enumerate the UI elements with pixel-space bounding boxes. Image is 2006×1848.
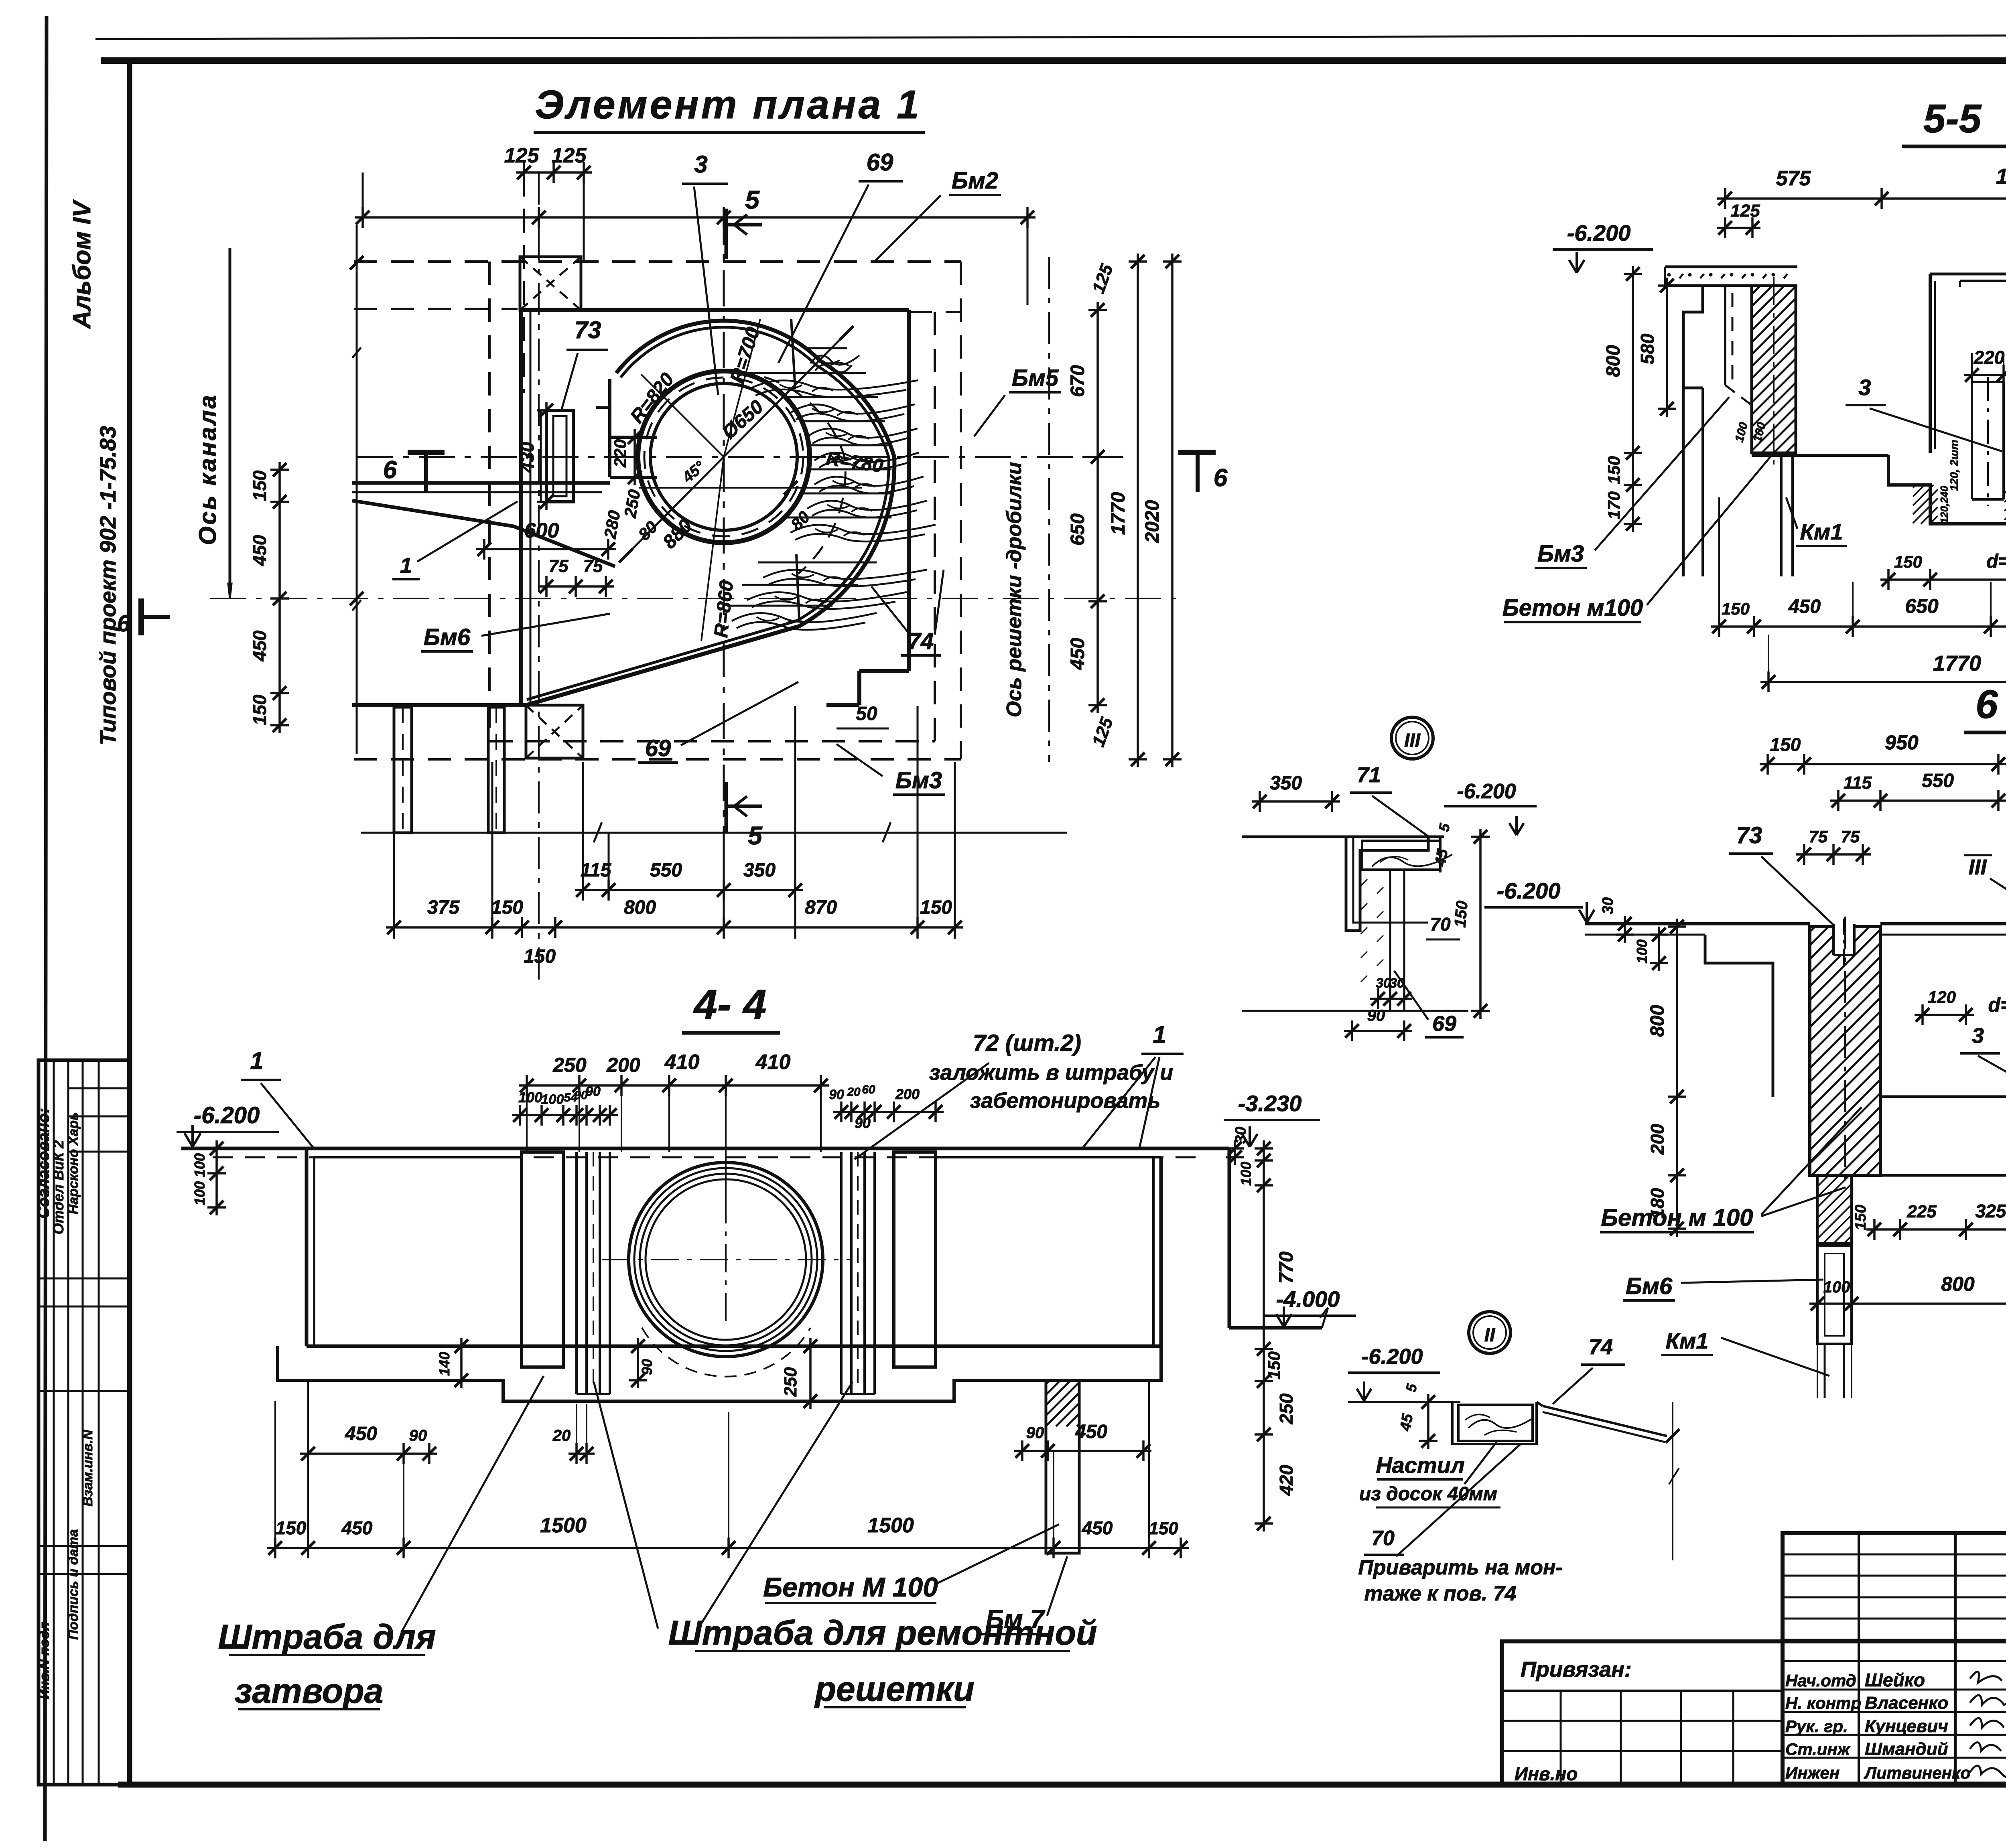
- svg-text:575: 575: [1776, 167, 1811, 190]
- approval table row line 1: [68, 1087, 130, 1089]
- svg-text:-6.200: -6.200: [1457, 780, 1516, 803]
- svg-text:3: 3: [694, 151, 707, 178]
- svg-text:6: 6: [117, 611, 130, 637]
- svg-text:580: 580: [1637, 333, 1658, 364]
- s44 gate pilaster left: [522, 1152, 563, 1367]
- svg-text:150: 150: [920, 897, 952, 918]
- svg-text:250: 250: [1276, 1393, 1297, 1424]
- svg-text:150: 150: [276, 1517, 307, 1538]
- svg-text:из досок 40мм: из досок 40мм: [1359, 1483, 1497, 1505]
- s44 pit right wall: [1159, 1157, 1163, 1346]
- svg-text:Ст.инж: Ст.инж: [1785, 1740, 1851, 1759]
- svg-text:6: 6: [1214, 464, 1228, 492]
- svg-text:200: 200: [895, 1086, 920, 1102]
- s55 left dim col inner: [1666, 278, 1668, 417]
- s66 floor lower profile: [1852, 1175, 2006, 1229]
- plan pit wall right edge: [907, 310, 911, 671]
- s55 left dim col outer: [1632, 266, 1634, 532]
- svg-text:4- 4: 4- 4: [693, 981, 767, 1028]
- s44 bottom extensions: [274, 1401, 276, 1556]
- s44 pit top inner edge: [314, 1156, 522, 1158]
- title block outer frame: [1502, 1641, 2006, 1785]
- s66 dim 100 800 row: [1809, 1302, 2006, 1305]
- s66 second dim row: [1830, 799, 2006, 802]
- plan volute exit diagonal wall: [526, 626, 799, 705]
- s55 left wall profile: [1683, 286, 1703, 388]
- s44 dim 20 center: [569, 1452, 595, 1455]
- s55 floor left part: [1752, 454, 1888, 457]
- s44 dim 140 left: [460, 1338, 463, 1388]
- s44 pipe centerlines: [602, 1259, 851, 1260]
- svg-text:30: 30: [1600, 897, 1616, 914]
- svg-text:-6.200: -6.200: [1497, 878, 1561, 903]
- s66 ground line mid: [1880, 922, 2006, 925]
- sheet frame bottom border: [118, 1782, 2006, 1788]
- svg-text:6 - 6: 6 - 6: [1976, 682, 2006, 727]
- svg-text:Ось решетки -дробилки: Ось решетки -дробилки: [1003, 462, 1026, 718]
- dIII channel profile: [1346, 837, 1428, 931]
- s66 floor profile: [1880, 1097, 2006, 1128]
- plan inlet notch: [610, 436, 657, 439]
- svg-text:650: 650: [1067, 513, 1088, 546]
- s55 dim 220 center: [1964, 374, 2006, 376]
- svg-text:115: 115: [1844, 773, 1872, 793]
- svg-text:2020: 2020: [1142, 500, 1163, 543]
- approval table row line 5: [39, 1306, 130, 1308]
- svg-text:50: 50: [856, 703, 877, 724]
- svg-text:74: 74: [908, 628, 934, 654]
- svg-text:150: 150: [524, 946, 556, 967]
- svg-text:69: 69: [867, 149, 893, 176]
- s55 chamber top opening: [1930, 273, 2006, 276]
- svg-text:115: 115: [581, 860, 612, 881]
- approval table row line 4: [39, 1278, 130, 1280]
- tb signatures: [1970, 1672, 2002, 1683]
- plan radial spoke R700: [724, 319, 760, 457]
- svg-text:20: 20: [552, 1427, 571, 1444]
- plan top dim vertical extensions: [523, 172, 525, 393]
- svg-text:Бетон м100: Бетон м100: [1502, 595, 1643, 621]
- svg-text:Настил: Настил: [1376, 1452, 1465, 1478]
- svg-text:1445: 1445: [1996, 164, 2006, 189]
- s55 hatched wall centerline: [1773, 277, 1775, 465]
- dIII dim 350: [1252, 800, 1340, 803]
- s44 base slab profile: [278, 1346, 1161, 1401]
- plan dim 220 notch: [633, 429, 636, 485]
- svg-text:-6.200: -6.200: [1361, 1345, 1423, 1369]
- s44 gate slot dashed center: [593, 1152, 594, 1394]
- svg-text:90: 90: [1026, 1424, 1044, 1442]
- svg-text:100: 100: [1238, 1162, 1254, 1186]
- detail II circle mark: [1469, 1312, 1511, 1353]
- svg-text:325: 325: [1976, 1201, 2006, 1221]
- s55 top dim row: [1717, 197, 2006, 200]
- svg-text:200: 200: [1647, 1124, 1668, 1155]
- detail III circle mark: [1391, 717, 1433, 759]
- s66 Bm6 white box: [1817, 1246, 1852, 1344]
- svg-text:125: 125: [1730, 201, 1760, 221]
- s55 central slot column: [1971, 382, 1973, 499]
- svg-text:Бетон м 100: Бетон м 100: [1601, 1204, 1753, 1231]
- title block tall grid box: [1783, 1533, 2006, 1785]
- plan grid dash-dot vertical A: [538, 172, 540, 983]
- svg-text:5: 5: [745, 185, 760, 214]
- svg-text:150: 150: [1852, 1205, 1869, 1230]
- s44 pipe outer circle: [629, 1162, 823, 1357]
- svg-text:Ось канала: Ось канала: [194, 394, 221, 545]
- svg-text:150: 150: [1770, 734, 1801, 755]
- svg-text:таже к пов. 74: таже к пов. 74: [1364, 1582, 1516, 1605]
- plan bottom dim row 1: [575, 889, 803, 891]
- svg-text:150: 150: [1451, 900, 1471, 928]
- svg-text:90: 90: [1367, 1007, 1385, 1024]
- dII top line: [1348, 1401, 1460, 1403]
- plan dim 600: [476, 548, 616, 550]
- dII leader board: [1464, 1442, 1496, 1484]
- svg-text:410: 410: [664, 1051, 700, 1074]
- svg-text:200: 200: [606, 1054, 640, 1076]
- svg-text:150: 150: [1265, 1351, 1283, 1379]
- svg-text:Инв.но: Инв.но: [1515, 1763, 1578, 1784]
- svg-text:150: 150: [249, 470, 270, 501]
- svg-text:90: 90: [829, 1087, 844, 1102]
- plan gate device 73 inner: [553, 416, 566, 496]
- s66 left dim col: [1676, 919, 1678, 1237]
- s55 left foundation piles: [1780, 455, 1783, 576]
- svg-text:74: 74: [1589, 1335, 1613, 1359]
- svg-text:1: 1: [1153, 1021, 1166, 1048]
- svg-text:Км1: Км1: [1800, 519, 1843, 544]
- svg-text:1770: 1770: [1108, 492, 1129, 535]
- sheet frame top border: [101, 57, 2006, 64]
- plan right dim col 1: [1096, 302, 1099, 713]
- svg-text:450: 450: [249, 535, 270, 566]
- tb grid horizontals: [1783, 1554, 2006, 1556]
- plan right dim col 2: [1137, 254, 1139, 767]
- svg-text:затвора: затвора: [235, 1672, 384, 1710]
- plan pit bottom right edge: [859, 669, 909, 673]
- svg-text:Власенко: Власенко: [1865, 1693, 1948, 1713]
- s44 pipe dashed bottom: [642, 1328, 810, 1377]
- svg-text:3: 3: [1858, 375, 1871, 400]
- tb grid verticals: [1858, 1533, 1860, 1785]
- svg-text:100: 100: [1634, 939, 1650, 964]
- svg-text:5: 5: [748, 821, 763, 850]
- plan dashed inner vertical right: [934, 312, 936, 741]
- svg-text:350: 350: [743, 860, 776, 881]
- plan wood area bottom boundary: [796, 554, 799, 620]
- svg-text:800: 800: [624, 897, 656, 918]
- svg-text:Инжен: Инжен: [1785, 1763, 1840, 1782]
- plan right dim col 3: [1171, 254, 1174, 767]
- svg-text:Нарсконо Харь: Нарсконо Харь: [66, 1112, 81, 1214]
- s44 dim 90 grate: [637, 1338, 639, 1388]
- approval table col line 3: [82, 1060, 84, 1785]
- s66 ground line left: [1585, 922, 1810, 925]
- approval table row line 8: [39, 1573, 130, 1575]
- svg-text:Инв.N подл: Инв.N подл: [37, 1622, 52, 1700]
- s66 left hatched wall: [1810, 927, 1880, 1175]
- s55 left wall inner: [1724, 286, 1726, 385]
- dII right dim line: [1672, 1402, 1673, 1560]
- plan lower boundary line with breaks: [361, 832, 1067, 834]
- s44 right vert dims: [1263, 1140, 1265, 1532]
- svg-text:225: 225: [1907, 1202, 1937, 1221]
- plan chamber left wall: [608, 379, 611, 437]
- svg-text:100: 100: [1823, 1278, 1850, 1296]
- svg-text:решетки: решетки: [814, 1670, 974, 1708]
- svg-text:Бм3: Бм3: [1537, 541, 1584, 567]
- svg-text:Бм6: Бм6: [424, 624, 471, 650]
- svg-text:45: 45: [1397, 1412, 1417, 1433]
- approval table row line 6: [39, 1390, 130, 1392]
- dIII board end plate: [1439, 837, 1442, 872]
- svg-text:800: 800: [1647, 1005, 1668, 1037]
- svg-text:140: 140: [436, 1352, 453, 1376]
- svg-text:75: 75: [583, 556, 603, 576]
- svg-text:125: 125: [504, 144, 540, 167]
- svg-text:375: 375: [427, 897, 460, 918]
- plan vertical centerline: [723, 209, 725, 838]
- plan section mark 6 frame side: [138, 598, 144, 635]
- s66 left wall centerline: [1844, 917, 1846, 1187]
- plan channel axis vertical line: [229, 248, 231, 594]
- plan dashed slab edge top: [354, 260, 961, 263]
- s44 gate slot left pair: [575, 1152, 578, 1394]
- tb left привязан box lines: [1502, 1690, 1783, 1692]
- svg-text:Бм6: Бм6: [1626, 1273, 1673, 1299]
- s44 right ledge: [1229, 1326, 1322, 1330]
- svg-text:450: 450: [1788, 596, 1821, 617]
- svg-text:90: 90: [639, 1359, 655, 1375]
- s44 grate pilaster right: [894, 1152, 936, 1367]
- s55 hatched wall left: [1752, 286, 1796, 453]
- svg-text:410: 410: [755, 1051, 791, 1074]
- svg-text:90: 90: [409, 1427, 427, 1444]
- svg-text:5-5: 5-5: [1923, 96, 1982, 141]
- s55 bottom dim row: [1711, 625, 2006, 628]
- plan inlet channel top wall: [352, 481, 610, 485]
- svg-text:100: 100: [518, 1089, 542, 1106]
- svg-text:Км1: Км1: [1666, 1328, 1709, 1353]
- svg-text:70: 70: [1430, 914, 1451, 935]
- plan left dim column: [278, 462, 281, 733]
- svg-text:Подпись и дата: Подпись и дата: [66, 1529, 81, 1640]
- svg-text:45: 45: [1432, 848, 1452, 868]
- svg-text:73: 73: [575, 316, 601, 343]
- plan outlet channel left wall: [394, 707, 412, 833]
- svg-text:Шейко: Шейко: [1865, 1669, 1925, 1690]
- svg-text:90: 90: [855, 1115, 871, 1131]
- svg-text:-4.000: -4.000: [1276, 1286, 1340, 1312]
- s55 dim 125 left: [1717, 227, 1760, 229]
- plan wood grate crescent texture: [806, 347, 847, 349]
- svg-text:550: 550: [650, 860, 682, 881]
- svg-text:75: 75: [1841, 827, 1860, 846]
- s55 cover plate 73: [1960, 280, 2006, 282]
- s66 top dim row: [1760, 763, 2006, 765]
- svg-text:Нач.отд: Нач.отд: [1785, 1671, 1856, 1690]
- svg-text:73: 73: [1736, 822, 1762, 848]
- plan dim line 80 right: [639, 487, 862, 489]
- svg-text:Рук. гр.: Рук. гр.: [1785, 1717, 1848, 1736]
- s44 top surface line: [181, 1147, 1229, 1150]
- svg-text:Бетон М 100: Бетон М 100: [763, 1572, 938, 1603]
- svg-text:100: 100: [191, 1153, 208, 1177]
- svg-text:20: 20: [847, 1085, 861, 1099]
- svg-text:350: 350: [1270, 773, 1302, 794]
- plan volute dashed liner: [764, 377, 845, 574]
- s55 left slab left break: [1664, 267, 1666, 286]
- plan radial tick marks: [619, 549, 633, 562]
- svg-text:420: 420: [1276, 1465, 1297, 1496]
- dII plate left bend: [1537, 1402, 1543, 1406]
- svg-text:1500: 1500: [867, 1514, 914, 1537]
- svg-text:Литвиненко: Литвиненко: [1864, 1763, 1971, 1782]
- plan dashed bottom edge 2: [354, 758, 961, 761]
- s66 left wall lower hatch strip: [1817, 1175, 1852, 1243]
- svg-text:6: 6: [383, 456, 397, 484]
- svg-text:800: 800: [1603, 345, 1624, 377]
- dIII xhatch marks: [1361, 879, 1367, 886]
- approval table row line 2: [68, 1116, 130, 1118]
- s44 pit left wall: [305, 1148, 309, 1346]
- svg-text:Бм2: Бм2: [952, 168, 998, 194]
- plan section mark 6 right: [1178, 450, 1216, 455]
- svg-text:Типовой проект 902 -1-75.83: Типовой проект 902 -1-75.83: [95, 426, 120, 745]
- s44 top small dims left: [512, 1114, 618, 1116]
- plan dashed bottom edge: [489, 740, 935, 742]
- svg-text:-6.200: -6.200: [194, 1102, 260, 1128]
- plan pit wall top edge: [520, 308, 909, 312]
- svg-text:150: 150: [1894, 552, 1922, 571]
- s44 right wall upper: [1228, 1148, 1231, 1328]
- s55 ext lines bottom: [1718, 497, 1720, 635]
- plan crossed column bottom-left box: [526, 705, 583, 758]
- svg-text:1500: 1500: [540, 1514, 587, 1537]
- svg-text:Кунцевич: Кунцевич: [1865, 1716, 1948, 1736]
- svg-text:120,240: 120,240: [1938, 485, 1950, 523]
- plan horizontal centerline: [357, 456, 1123, 458]
- dII sloping plate: [1543, 1406, 1667, 1436]
- svg-text:100: 100: [191, 1181, 208, 1205]
- svg-text:120, 2шт: 120, 2шт: [1948, 440, 1960, 491]
- s44 right ledge break: [1320, 1308, 1328, 1328]
- s55 dim row d650: [1880, 578, 2006, 581]
- svg-text:1770: 1770: [1933, 651, 1981, 676]
- svg-text:220: 220: [1974, 347, 2005, 368]
- s44 top small dims right: [833, 1111, 944, 1113]
- dIII lower vertical lines: [1389, 870, 1391, 1011]
- plan diagonal radial 45: [626, 333, 847, 556]
- plan bottom dim extensions: [582, 762, 584, 899]
- svg-text:125: 125: [552, 144, 587, 167]
- plan wood area top boundary: [791, 319, 795, 389]
- svg-text:70: 70: [1371, 1527, 1395, 1550]
- plan grinder axis dash-dot line: [1048, 257, 1050, 762]
- s66 ground line thin second: [1585, 934, 1705, 936]
- s66 dim 75 75: [1796, 853, 1871, 856]
- svg-text:450: 450: [1082, 1517, 1113, 1538]
- svg-text:450: 450: [341, 1517, 373, 1538]
- svg-text:150: 150: [491, 897, 523, 918]
- svg-text:1: 1: [250, 1047, 263, 1074]
- plan radial spoke R860: [701, 457, 724, 641]
- plan gate device 73 outer: [546, 410, 573, 502]
- svg-text:III: III: [1968, 855, 1987, 879]
- svg-text:Взам.инв.N: Взам.инв.N: [80, 1429, 95, 1507]
- s66 left step profile: [1705, 935, 1773, 1097]
- plan outlet channel dashed centers: [402, 707, 404, 833]
- s44 Bm7 column: [1046, 1380, 1079, 1553]
- plan dashed slab right top: [909, 311, 961, 313]
- svg-text:250: 250: [552, 1054, 587, 1076]
- svg-text:600: 600: [524, 519, 559, 542]
- s66 dim 120 d610 120: [1915, 1014, 1974, 1016]
- svg-text:170: 170: [1604, 491, 1623, 519]
- svg-text:60: 60: [862, 1083, 875, 1096]
- svg-text:870: 870: [805, 897, 837, 918]
- svg-text:450: 450: [1075, 1421, 1107, 1442]
- svg-text:450: 450: [1067, 638, 1088, 670]
- svg-text:72 (шт.2): 72 (шт.2): [973, 1030, 1081, 1056]
- svg-text:II: II: [1484, 1325, 1496, 1346]
- svg-text:430: 430: [517, 442, 538, 473]
- svg-text:Н. контр: Н. контр: [1785, 1694, 1861, 1712]
- svg-text:Бм3: Бм3: [895, 767, 942, 793]
- plan chamber inner circle: [650, 383, 797, 530]
- svg-text:Приварить на мон-: Приварить на мон-: [1358, 1556, 1562, 1579]
- svg-text:30: 30: [1376, 976, 1391, 991]
- plan dim 75 75: [538, 585, 614, 588]
- plan volute outer wall: [526, 321, 894, 705]
- dII wood board: [1458, 1405, 1533, 1441]
- svg-text:770: 770: [1276, 1252, 1297, 1284]
- approval table row line 7: [39, 1545, 130, 1547]
- svg-text:69: 69: [1432, 1012, 1456, 1036]
- approval table row line 3: [68, 1151, 130, 1153]
- plan bottom dim row 2: [386, 926, 963, 929]
- s44 pipe rings: [634, 1168, 817, 1351]
- plan top small dim ticks: [516, 171, 592, 174]
- s66 Km1 lines below: [1824, 1344, 1826, 1398]
- s55 floor step profile: [1888, 455, 2006, 524]
- s55 dim row 1770: [1760, 681, 2006, 683]
- svg-text:d= 610: d= 610: [1988, 994, 2006, 1016]
- svg-text:670: 670: [1067, 365, 1088, 397]
- s55 chamber interior walls: [1929, 274, 1932, 453]
- approval table col line 1: [53, 1060, 55, 1785]
- svg-text:Штраба для ремонтной: Штраба для ремонтной: [668, 1614, 1097, 1652]
- sheet left edge line: [45, 16, 47, 1841]
- svg-text:100: 100: [541, 1092, 564, 1107]
- svg-text:120: 120: [1928, 988, 1956, 1006]
- s44 left vert dims: [215, 1140, 218, 1215]
- s44 mid dim 90 450 right: [1014, 1450, 1151, 1452]
- dIII top line: [1242, 836, 1444, 838]
- svg-text:d=650: d=650: [1986, 551, 2006, 572]
- plan pit bottom left edge: [352, 703, 526, 707]
- plan pit wall left edge: [519, 310, 523, 705]
- svg-text:150: 150: [1722, 599, 1750, 618]
- s44 top surface dashed: [213, 1156, 1196, 1158]
- svg-text:90: 90: [585, 1084, 601, 1099]
- svg-text:550: 550: [1922, 770, 1954, 791]
- plan dashed slab right vertical: [960, 262, 962, 759]
- svg-text:Шмандий: Шмандий: [1865, 1739, 1948, 1759]
- sheet top page edge line: [95, 34, 2006, 39]
- svg-text:Штраба для: Штраба для: [218, 1618, 436, 1656]
